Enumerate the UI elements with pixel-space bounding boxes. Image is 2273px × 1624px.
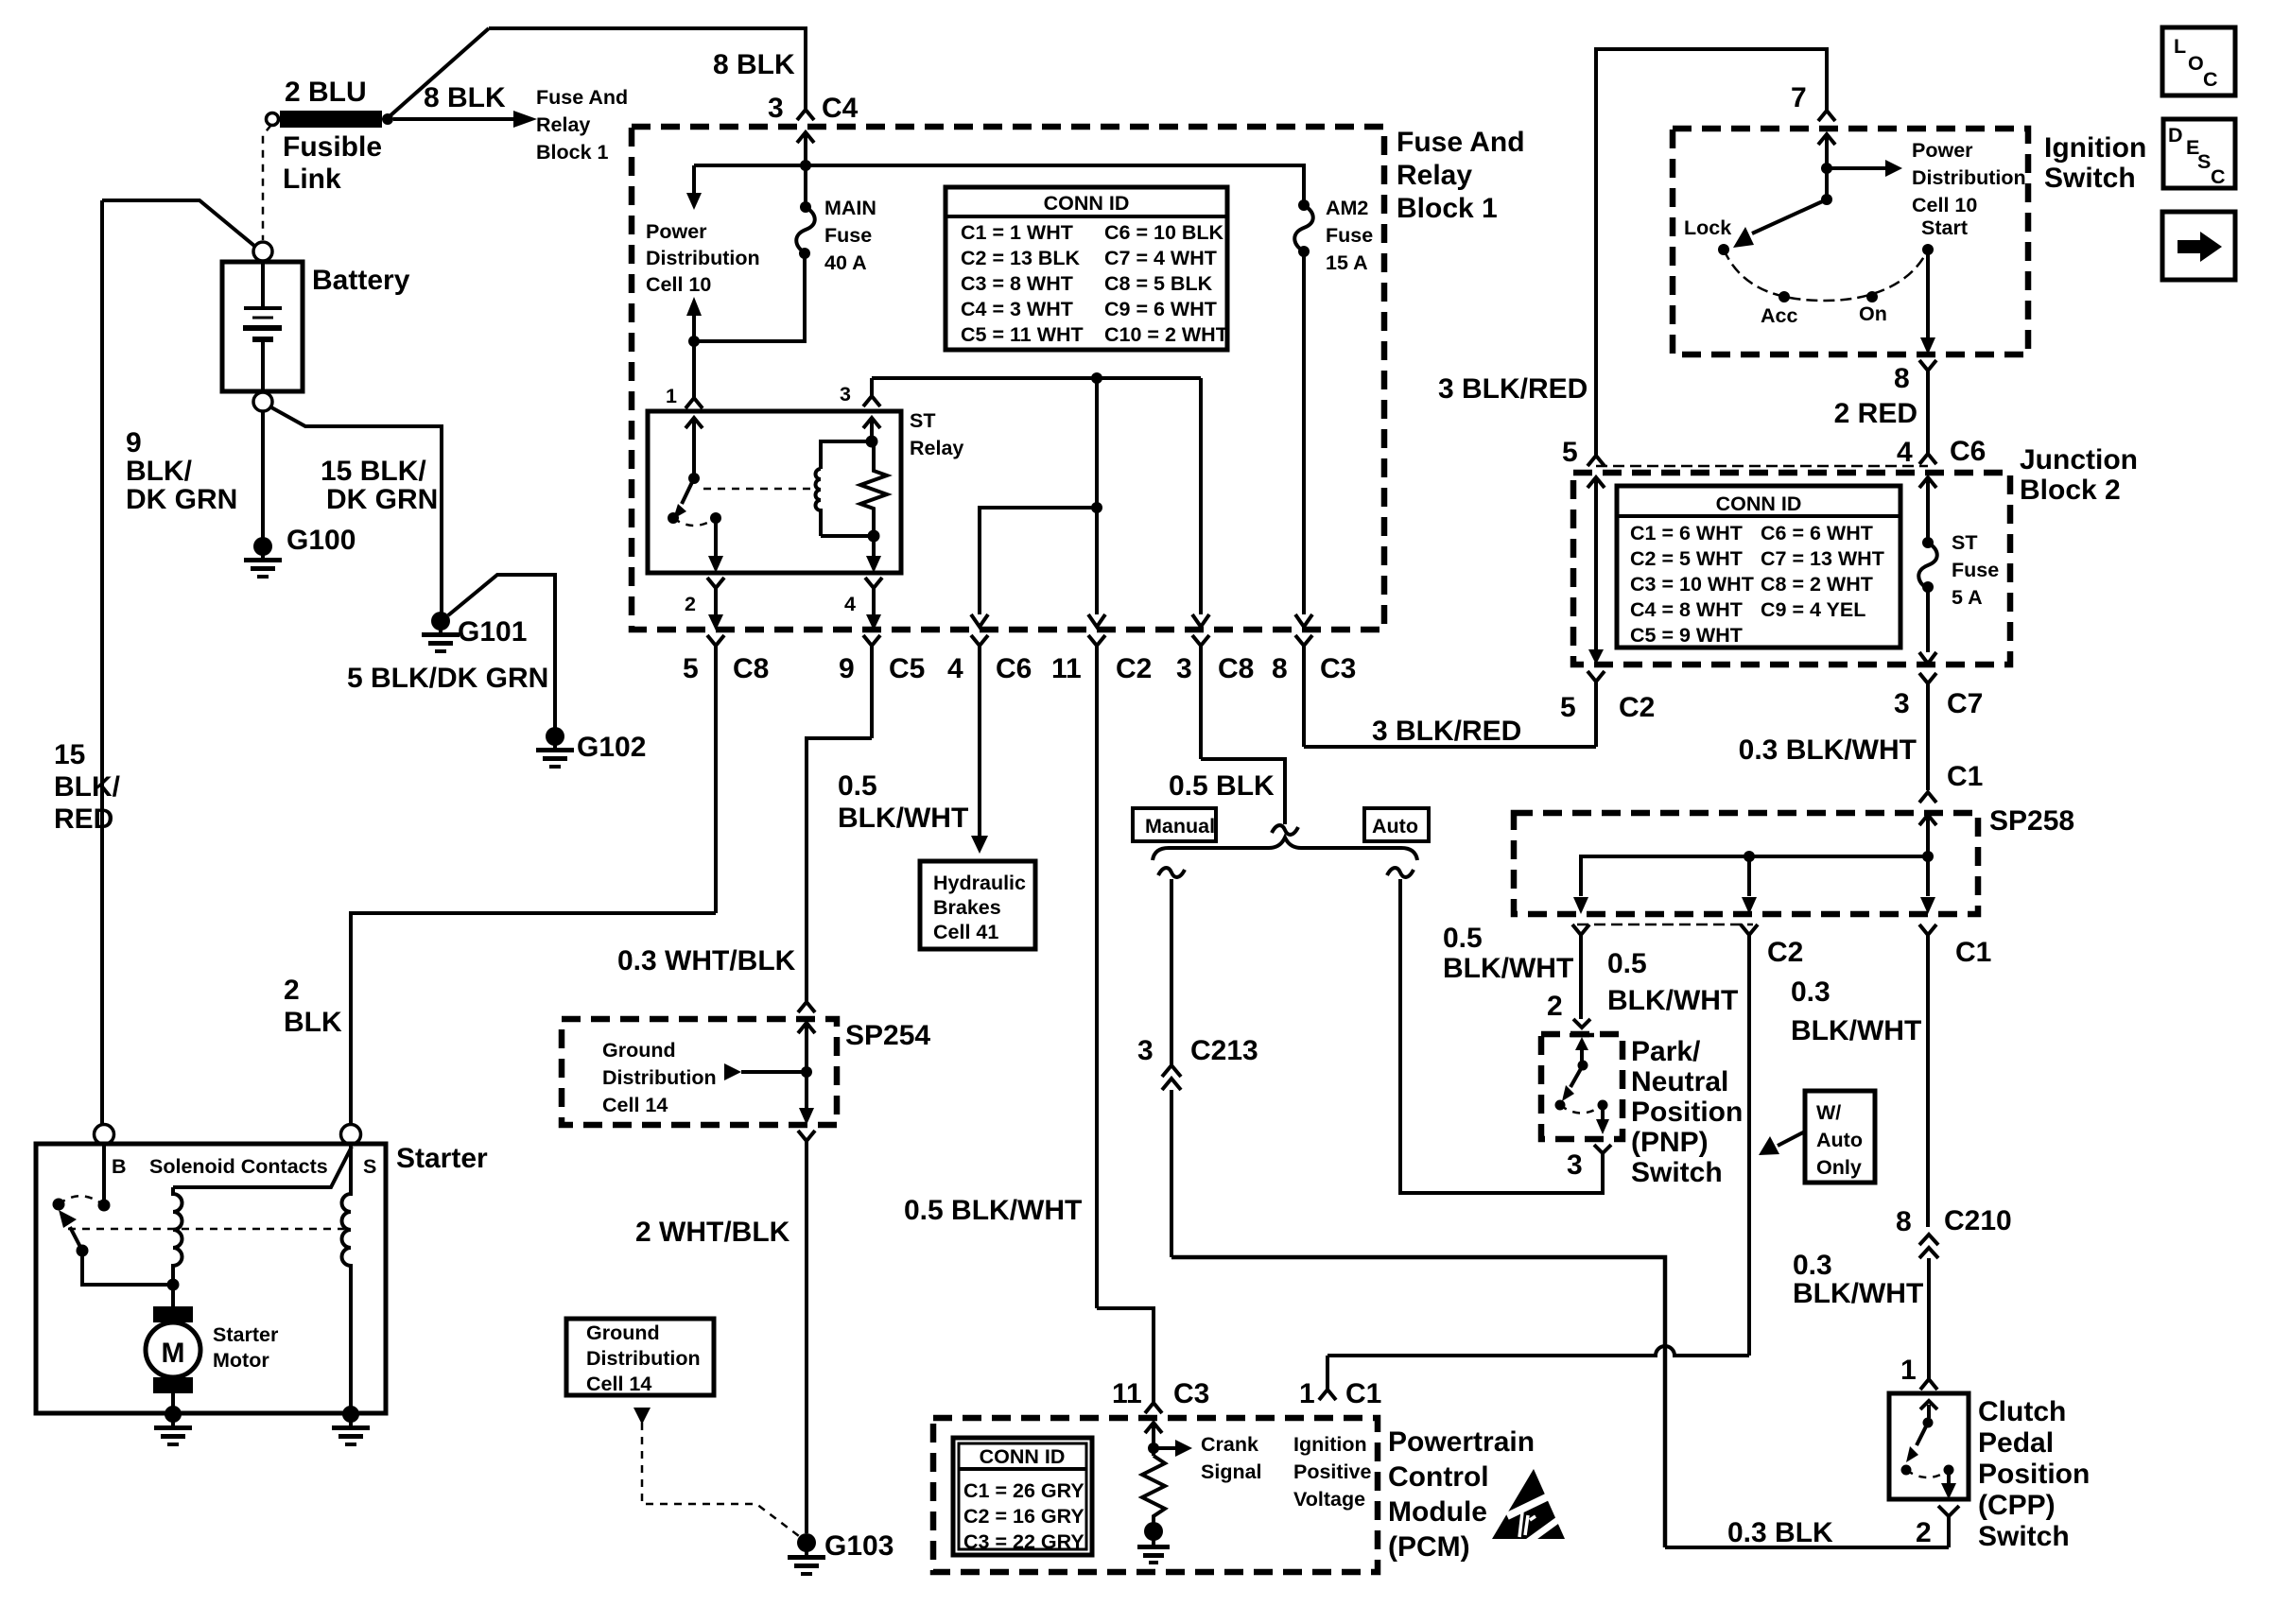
starter box (36, 1144, 386, 1413)
svg-text:Clutch: Clutch (1978, 1396, 2066, 1427)
svg-text:Fuse: Fuse (1952, 559, 1999, 581)
connector pin 2 below relay (707, 578, 724, 614)
svg-text:3 BLK/RED: 3 BLK/RED (1438, 373, 1588, 405)
junction block 2 dashed box (1573, 473, 2010, 665)
svg-text:0.5: 0.5 (1607, 948, 1647, 979)
detent arc (1724, 250, 1928, 301)
svg-text:Position: Position (1978, 1459, 2090, 1490)
svg-text:C210: C210 (1944, 1205, 2012, 1236)
svg-text:Junction: Junction (2020, 444, 2138, 475)
svg-text:2 BLU: 2 BLU (285, 77, 367, 108)
svg-text:MAIN: MAIN (824, 197, 876, 219)
wire 0.3 WHT/BLK: 9 C5 jog (807, 738, 872, 1001)
svg-text:C1 = 26 GRY: C1 = 26 GRY (963, 1479, 1084, 1502)
svg-text:Switch: Switch (1978, 1521, 2070, 1552)
svg-text:SP258: SP258 (1989, 805, 2074, 837)
svg-text:Distribution: Distribution (1912, 166, 2026, 189)
ground G102 (536, 727, 574, 769)
svg-text:C6: C6 (1950, 436, 1986, 467)
wire Auto branch to PNP pin 3 (1400, 879, 1603, 1193)
ignition switch dashed box (1673, 129, 2028, 354)
svg-text:B: B (112, 1155, 127, 1178)
svg-text:Neutral: Neutral (1631, 1066, 1728, 1097)
wire relay pin3 bus (872, 376, 1201, 380)
node crank signal junction (1148, 1443, 1159, 1454)
svg-text:Power: Power (1912, 139, 1973, 162)
svg-text:8: 8 (1894, 363, 1910, 394)
connector 5 C2 (1588, 671, 1605, 747)
svg-text:Positive: Positive (1293, 1460, 1371, 1483)
connector CPP pin 2 (1938, 1506, 1959, 1547)
wire ignition positive voltage to PCM (hop) (1327, 1346, 1749, 1356)
svg-text:1: 1 (666, 385, 677, 407)
svg-text:Module: Module (1388, 1496, 1487, 1528)
node branch junction (1091, 502, 1102, 513)
icon DESC (2163, 119, 2235, 188)
svg-text:C9 = 4 YEL: C9 = 4 YEL (1761, 598, 1865, 621)
wire 3 BLK/RED through JB2 (1588, 477, 1605, 650)
svg-text:BLK/WHT: BLK/WHT (1607, 985, 1738, 1016)
wire motor to ground (171, 1393, 175, 1410)
relay ST Relay box (648, 411, 901, 573)
wire 3 C8 drop (1199, 378, 1203, 614)
svg-text:Only: Only (1816, 1156, 1862, 1179)
svg-text:Solenoid Contacts: Solenoid Contacts (149, 1155, 328, 1178)
connector 4 C6 (971, 635, 988, 838)
wire to power distribution (down arrow) (692, 165, 696, 195)
svg-text:Cell 41: Cell 41 (933, 921, 998, 943)
svg-text:C213: C213 (1190, 1035, 1258, 1066)
svg-text:Distribution: Distribution (602, 1066, 717, 1089)
coil hold-in winding (342, 1144, 352, 1410)
open arrows at block bottom edge (971, 614, 988, 627)
connector 5 C8 (707, 635, 724, 913)
svg-text:G100: G100 (286, 525, 356, 556)
leader dashed to G103 (633, 1408, 651, 1425)
CPP switch box (1889, 1393, 1969, 1499)
svg-text:Power: Power (646, 220, 707, 243)
svg-text:On: On (1859, 302, 1887, 325)
svg-text:CONN ID: CONN ID (980, 1445, 1066, 1468)
relay dashed actuator link (703, 488, 811, 491)
svg-text:3: 3 (840, 383, 851, 406)
svg-text:(CPP): (CPP) (1978, 1490, 2056, 1521)
svg-text:Fuse And: Fuse And (536, 86, 628, 109)
node SP258 junctions (1922, 851, 1934, 862)
svg-text:BLK/WHT: BLK/WHT (1791, 1015, 1921, 1046)
svg-text:ST: ST (1952, 531, 1977, 554)
svg-text:C1 = 6 WHT: C1 = 6 WHT (1630, 522, 1743, 544)
svg-text:C5 = 9 WHT: C5 = 9 WHT (1630, 624, 1743, 647)
svg-text:Switch: Switch (2044, 163, 2136, 194)
svg-text:0.5: 0.5 (1443, 923, 1483, 954)
svg-text:Cell 14: Cell 14 (602, 1094, 668, 1116)
svg-text:7: 7 (1791, 82, 1807, 113)
wire pin1 stub above relay (692, 341, 696, 361)
leader arrow to wire (724, 1063, 741, 1080)
wire 9 BLK/DK GRN to G100 (261, 411, 265, 539)
svg-text:C3 = 22 GRY: C3 = 22 GRY (963, 1530, 1084, 1553)
svg-text:C4: C4 (822, 93, 859, 124)
svg-text:3: 3 (1567, 1149, 1583, 1181)
icon LOC (2162, 27, 2235, 95)
svg-text:Fusible: Fusible (283, 131, 382, 163)
wire 4 C6 into hydraulic brakes (971, 836, 988, 854)
svg-text:5 A: 5 A (1952, 586, 1983, 609)
PNP switch arm (1580, 1049, 1584, 1065)
wire-break tilde (0.5 BLK) (1272, 825, 1298, 835)
connector PNP pin 3 (1594, 1145, 1611, 1155)
svg-text:15 A: 15 A (1326, 251, 1368, 274)
svg-text:G102: G102 (577, 732, 646, 763)
svg-text:C8: C8 (1218, 653, 1254, 684)
svg-text:C6: C6 (996, 653, 1032, 684)
wire diagonal from fusible link to top wire (390, 28, 489, 116)
svg-text:Switch: Switch (1631, 1157, 1723, 1188)
fusible link (267, 113, 279, 126)
terminal B (95, 1125, 114, 1145)
svg-text:Relay: Relay (1397, 160, 1472, 191)
svg-text:3 BLK/RED: 3 BLK/RED (1372, 716, 1521, 747)
connector 11 C2 (1088, 635, 1105, 1308)
wire SP258 bus (1581, 856, 1928, 896)
ignition internal feed (1818, 134, 1835, 199)
wire 0.3 BLK (1665, 1546, 1949, 1549)
svg-text:S: S (363, 1155, 376, 1178)
splice SP254 dashed box (562, 1019, 837, 1125)
table CONN ID (PCM) (953, 1438, 1092, 1555)
svg-text:C2 = 13 BLK: C2 = 13 BLK (961, 247, 1081, 269)
svg-text:(PNP): (PNP) (1631, 1127, 1709, 1158)
svg-text:C4 = 3 WHT: C4 = 3 WHT (961, 298, 1073, 320)
svg-text:BLK/WHT: BLK/WHT (1443, 953, 1573, 984)
svg-text:C7 = 4 WHT: C7 = 4 WHT (1104, 247, 1217, 269)
node C4 junction (800, 160, 811, 171)
relay pin 2 wire (714, 518, 718, 556)
svg-text:Battery: Battery (312, 265, 410, 296)
box Auto (1364, 808, 1429, 841)
wire Start output (1926, 250, 1930, 338)
ground (solenoid) (332, 1406, 370, 1446)
svg-text:Ground: Ground (602, 1039, 676, 1062)
svg-text:C3: C3 (1320, 653, 1356, 684)
relay switch arm (688, 473, 700, 484)
svg-text:3: 3 (1176, 653, 1192, 684)
wire 4 C6 branch (980, 508, 1097, 614)
svg-text:5: 5 (683, 653, 699, 684)
svg-text:O: O (2188, 52, 2204, 75)
fuse AM2 Fuse 15 A (1298, 199, 1310, 211)
solenoid contacts (98, 1200, 111, 1212)
svg-text:0.5 BLK/WHT: 0.5 BLK/WHT (904, 1195, 1082, 1226)
svg-text:C8 = 2 WHT: C8 = 2 WHT (1761, 573, 1873, 596)
svg-text:Relay: Relay (910, 437, 963, 459)
connector 3 C8 (1192, 635, 1209, 759)
svg-text:W/: W/ (1816, 1101, 1841, 1124)
svg-text:C5: C5 (889, 653, 925, 684)
svg-text:2: 2 (1547, 991, 1563, 1022)
ignition rotor arm (1821, 194, 1832, 205)
battery B- terminal (253, 392, 272, 411)
svg-text:2 WHT/BLK: 2 WHT/BLK (635, 1217, 790, 1248)
svg-text:C1 = 1 WHT: C1 = 1 WHT (961, 221, 1073, 244)
svg-text:C4 = 8 WHT: C4 = 8 WHT (1630, 598, 1743, 621)
table CONN ID (fuse block) (946, 187, 1227, 350)
wire SP254 exit (805, 1072, 808, 1108)
svg-text:C2: C2 (1619, 692, 1655, 723)
svg-text:BLK/WHT: BLK/WHT (1793, 1278, 1923, 1309)
motor Starter Motor (153, 1306, 193, 1322)
svg-text:Crank: Crank (1201, 1433, 1258, 1456)
SP258 exit arrows (1573, 897, 1588, 914)
svg-text:ST: ST (910, 409, 935, 432)
svg-text:8: 8 (1896, 1206, 1912, 1237)
box Hydraulic Brakes Cell 41 (920, 861, 1035, 949)
svg-text:8 BLK: 8 BLK (713, 49, 795, 80)
PNP top contact bar (1570, 1033, 1594, 1038)
wire Manual branch to CPP (1171, 1257, 1665, 1547)
harness boundary (thin dashes) (1596, 465, 1928, 468)
svg-text:C5 = 11 WHT: C5 = 11 WHT (961, 323, 1084, 346)
svg-text:SP254: SP254 (845, 1020, 930, 1051)
svg-text:Lock: Lock (1684, 216, 1731, 239)
resistor (crank pull-up) (1142, 1456, 1165, 1524)
svg-text:2: 2 (1916, 1517, 1932, 1548)
svg-text:2: 2 (685, 593, 696, 615)
svg-text:Brakes: Brakes (933, 896, 1001, 919)
svg-text:Distribution: Distribution (586, 1347, 701, 1370)
svg-text:Relay: Relay (536, 113, 590, 136)
svg-text:Voltage: Voltage (1293, 1488, 1365, 1511)
svg-text:2: 2 (284, 975, 300, 1006)
battery B+ terminal (253, 242, 272, 261)
wire 11 C2 jog into PCM (1097, 1308, 1154, 1403)
wire 3 BLK/RED ignition feed loop (1596, 49, 1827, 456)
wire from power distribution (up arrow) (686, 297, 702, 316)
leader arrow Power Distribution Cell 10 (1827, 166, 1885, 170)
table CONN ID (JB2) (1617, 486, 1900, 648)
wire to motor (171, 1285, 175, 1307)
fuse MAIN Fuse 40 A (804, 165, 807, 207)
splice SP258 dashed box (1514, 813, 1978, 914)
svg-text:0.3 WHT/BLK: 0.3 WHT/BLK (617, 945, 796, 976)
svg-text:4: 4 (947, 653, 963, 684)
svg-text:BLK/: BLK/ (54, 771, 121, 803)
svg-text:C2: C2 (1116, 653, 1152, 684)
node feed junction (688, 336, 700, 347)
ground (starter motor) (154, 1406, 192, 1446)
svg-text:M: M (162, 1338, 185, 1369)
svg-text:D: D (2168, 124, 2183, 147)
ground G103 (788, 1533, 825, 1576)
svg-text:Block 2: Block 2 (2020, 475, 2121, 506)
contact On (1866, 291, 1878, 302)
svg-text:1: 1 (1900, 1355, 1917, 1386)
svg-text:Distribution: Distribution (646, 247, 760, 269)
svg-text:C1: C1 (1345, 1378, 1381, 1409)
svg-text:15 BLK/: 15 BLK/ (321, 456, 426, 487)
CPP switch arm (1920, 1401, 1937, 1418)
svg-text:Pedal: Pedal (1978, 1427, 2054, 1459)
svg-text:Control: Control (1388, 1461, 1489, 1493)
svg-text:C6 = 10 BLK: C6 = 10 BLK (1104, 221, 1224, 244)
wire-break tilde (Manual branch) (1158, 868, 1185, 877)
coil pull-in winding (173, 1187, 182, 1285)
svg-text:Manual: Manual (1145, 815, 1215, 838)
wire left rail down to starter B (102, 200, 104, 1124)
brace (1153, 838, 1417, 860)
harness boundary below SP258 (1577, 924, 1753, 926)
svg-text:5 BLK/DK GRN: 5 BLK/DK GRN (347, 663, 548, 694)
svg-text:Ground: Ground (586, 1322, 660, 1344)
svg-text:5: 5 (1562, 437, 1578, 468)
svg-text:C6 = 6 WHT: C6 = 6 WHT (1761, 522, 1873, 544)
svg-text:L: L (2174, 35, 2186, 58)
svg-text:C10 = 2 WHT: C10 = 2 WHT (1104, 323, 1228, 346)
svg-text:40 A: 40 A (824, 251, 867, 274)
svg-text:1: 1 (1299, 1378, 1315, 1409)
svg-text:9: 9 (839, 653, 855, 684)
relay coil (821, 441, 874, 469)
svg-text:Ignition: Ignition (1293, 1433, 1367, 1456)
svg-text:C7 = 13 WHT: C7 = 13 WHT (1761, 547, 1884, 570)
dashed wire fusible link to battery (263, 125, 271, 240)
svg-text:Hydraulic: Hydraulic (933, 872, 1026, 894)
wire 0.5 BLK jog (1201, 759, 1285, 824)
svg-text:Ignition: Ignition (2044, 132, 2146, 164)
leader arrow Crank Signal (1154, 1446, 1175, 1450)
svg-text:CONN ID: CONN ID (1044, 192, 1130, 215)
svg-text:Starter: Starter (396, 1143, 488, 1174)
contact Acc (1778, 291, 1790, 302)
svg-text:4: 4 (844, 593, 856, 615)
svg-text:5: 5 (1560, 692, 1576, 723)
wire Manual branch (1170, 879, 1173, 1064)
svg-text:Fuse And: Fuse And (1397, 127, 1525, 158)
svg-text:C3: C3 (1173, 1378, 1209, 1409)
ground G100 (244, 537, 282, 579)
svg-text:BLK/: BLK/ (126, 456, 193, 487)
fuse/relay block 1 dashed box (632, 127, 1384, 630)
wire B into contacts (102, 1145, 106, 1201)
svg-text:CONN ID: CONN ID (1716, 492, 1802, 515)
svg-text:11: 11 (1112, 1378, 1142, 1409)
svg-text:BLK/WHT: BLK/WHT (838, 803, 968, 834)
wire 11 C2 drop (1095, 378, 1099, 614)
svg-text:Powertrain: Powertrain (1388, 1426, 1535, 1458)
svg-text:Cell 10: Cell 10 (1912, 194, 1977, 216)
svg-text:Auto: Auto (1816, 1129, 1863, 1151)
box W/ Auto Only (1805, 1091, 1875, 1183)
box Manual (1133, 808, 1216, 841)
wire feed bus inside block (694, 165, 1304, 203)
ground G101 (422, 612, 460, 653)
wire-break tilde (Auto branch) (1387, 868, 1414, 877)
svg-text:0.5: 0.5 (838, 770, 877, 802)
svg-text:3: 3 (1894, 688, 1910, 719)
svg-text:2 RED: 2 RED (1834, 398, 1917, 429)
PNP lower contact (1601, 1105, 1605, 1119)
wire 8 BLK top horizontal to C4 (489, 28, 806, 110)
wire S to pull-in coil (173, 1147, 352, 1187)
svg-text:Fuse: Fuse (1326, 224, 1373, 247)
svg-text:G101: G101 (458, 616, 527, 648)
ESD symbol (1492, 1469, 1570, 1542)
wire ST fuse exit (1926, 587, 1930, 652)
terminal S (341, 1125, 361, 1145)
svg-text:C7: C7 (1947, 688, 1983, 719)
svg-text:3: 3 (768, 93, 784, 124)
resistor (relay) (860, 441, 887, 536)
connector pin 4 below relay (865, 578, 882, 614)
svg-text:DK GRN: DK GRN (326, 484, 438, 515)
svg-text:C: C (2203, 68, 2218, 91)
svg-text:9: 9 (126, 427, 142, 458)
svg-text:4: 4 (1897, 437, 1913, 468)
leader arrow W/ Auto Only (1778, 1132, 1805, 1146)
connector ignition pin 8 (1919, 360, 1936, 454)
PCM dashed box (933, 1418, 1378, 1572)
svg-text:Fuse: Fuse (824, 224, 872, 247)
svg-text:C3 = 8 WHT: C3 = 8 WHT (961, 272, 1073, 295)
svg-text:Signal: Signal (1201, 1460, 1262, 1483)
node bus junction (1091, 372, 1102, 384)
icon arrow (2162, 212, 2235, 280)
svg-text:G103: G103 (824, 1530, 894, 1562)
svg-text:C1: C1 (1947, 761, 1983, 792)
actuator dashed link (68, 1228, 344, 1231)
svg-text:Cell 14: Cell 14 (586, 1373, 651, 1395)
svg-text:(PCM): (PCM) (1388, 1531, 1470, 1563)
battery Battery (222, 262, 303, 391)
box Ground Distribution Cell 14 (solid) (566, 1319, 714, 1395)
svg-text:0.3: 0.3 (1793, 1250, 1832, 1281)
ground (PCM internal) (1137, 1522, 1170, 1564)
svg-text:DK GRN: DK GRN (126, 484, 237, 515)
svg-text:Start: Start (1921, 216, 1968, 239)
wire 15 BLK/DK GRN to G101 (271, 407, 442, 614)
svg-text:0.5 BLK: 0.5 BLK (1169, 770, 1275, 802)
PNP switch dashed box (1541, 1034, 1622, 1139)
wire 3 BLK/RED from AM2 (1304, 745, 1596, 749)
relay pin 4 wire (872, 536, 876, 556)
connector 8 C3 (1295, 635, 1312, 747)
svg-text:11: 11 (1051, 653, 1082, 684)
svg-text:C2: C2 (1767, 937, 1803, 968)
svg-text:8 BLK: 8 BLK (424, 82, 506, 113)
svg-text:C1: C1 (1955, 937, 1991, 968)
svg-text:C2 = 5 WHT: C2 = 5 WHT (1630, 547, 1743, 570)
connector 3 C7 (1919, 673, 1936, 790)
wire battery feed to left rail (102, 200, 254, 246)
svg-text:Block 1: Block 1 (1397, 193, 1498, 224)
svg-text:BLK: BLK (284, 1007, 342, 1038)
svg-text:Starter: Starter (213, 1323, 279, 1346)
svg-text:0.3 BLK: 0.3 BLK (1727, 1517, 1833, 1548)
contact arm (70, 1227, 82, 1251)
svg-text:AM2: AM2 (1326, 197, 1368, 219)
wire 8 BLK to fuse block arrow (393, 117, 515, 121)
svg-text:C3 = 10 WHT: C3 = 10 WHT (1630, 573, 1754, 596)
svg-text:Motor: Motor (213, 1349, 269, 1372)
svg-text:8: 8 (1272, 653, 1288, 684)
svg-text:S: S (2197, 150, 2211, 173)
connectors below SP258 (1572, 924, 1589, 1019)
svg-text:Auto: Auto (1372, 815, 1418, 838)
wire 2 BLK: 5 C8 to starter S (351, 913, 716, 1124)
svg-text:0.3 BLK/WHT: 0.3 BLK/WHT (1739, 734, 1917, 766)
svg-text:C8 = 5 BLK: C8 = 5 BLK (1104, 272, 1213, 295)
